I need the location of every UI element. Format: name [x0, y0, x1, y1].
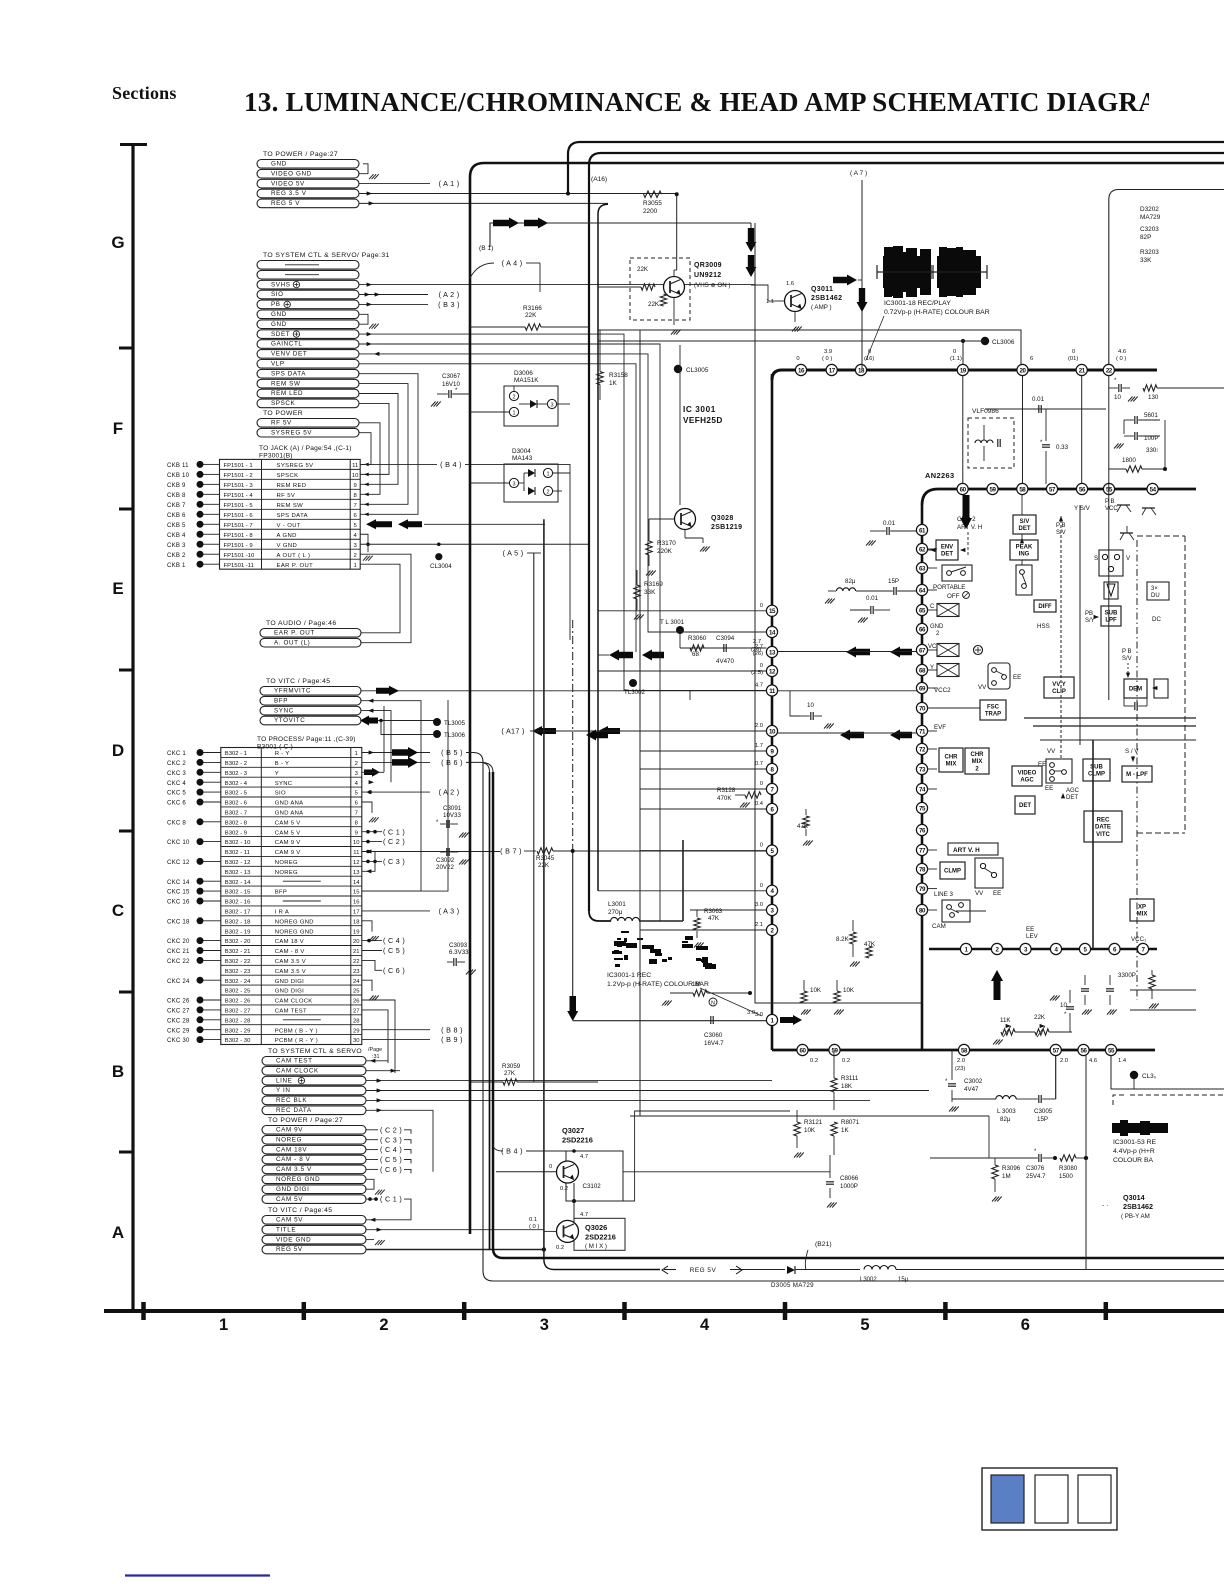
- svg-text:2SB1462: 2SB1462: [1123, 1202, 1153, 1211]
- block CHR MIX: [939, 748, 963, 772]
- block SV DET: [1013, 515, 1036, 534]
- svg-text:Y S/V: Y S/V: [1074, 505, 1091, 512]
- capacitor C3094: [723, 644, 725, 652]
- svg-text:FP1501 - 3: FP1501 - 3: [224, 483, 254, 489]
- svg-text:PB: PB: [1085, 611, 1093, 617]
- pill Y IN: [262, 1086, 366, 1095]
- mid pin 2: [991, 943, 1002, 954]
- svg-text:- ·: - ·: [1102, 1202, 1108, 1209]
- dashed box right edge: [1184, 536, 1186, 833]
- svg-text:L 3003: L 3003: [997, 1108, 1016, 1115]
- wire pin11: [690, 690, 766, 692]
- svg-text:15P: 15P: [1037, 1116, 1048, 1123]
- svg-text:2.0: 2.0: [755, 723, 763, 729]
- svg-text:VLF0986: VLF0986: [972, 408, 999, 415]
- svg-text:28: 28: [353, 1018, 360, 1024]
- switch VV EE 2: [1046, 759, 1072, 783]
- svg-text:SPSCK: SPSCK: [271, 400, 296, 407]
- svg-text:AN2263: AN2263: [925, 471, 955, 480]
- wire power pill: [366, 1139, 378, 1141]
- svg-text:130: 130: [1148, 394, 1159, 401]
- wire pin7: [640, 788, 766, 790]
- IC3001 pin 3: [766, 904, 777, 915]
- left ruler top bracket: [120, 143, 147, 146]
- CKC dot: [197, 1006, 204, 1013]
- svg-text:R3111: R3111: [841, 1075, 859, 1082]
- wire PCBM BY to B8: [362, 1029, 430, 1031]
- svg-text:SIO: SIO: [271, 291, 284, 298]
- wire REG 5V b: [366, 1249, 544, 1251]
- svg-text:TO POWER / Page:27: TO POWER / Page:27: [268, 1117, 343, 1124]
- fat arrows mid13: [846, 647, 870, 658]
- pill CAM CLOCK: [262, 1066, 366, 1075]
- wire right col verticals: [1079, 505, 1081, 745]
- svg-text:1.7: 1.7: [755, 743, 763, 749]
- svg-text:C: C: [930, 604, 935, 610]
- pill GND: [257, 310, 359, 319]
- svg-text:PB: PB: [271, 301, 281, 308]
- IC3001 pin 65: [916, 604, 927, 615]
- svg-text:CAM 18 V: CAM 18 V: [275, 939, 304, 945]
- wire pin22 down: [1108, 376, 1110, 700]
- svg-text:24: 24: [353, 979, 360, 985]
- wire CAM5V C1: [362, 831, 382, 833]
- svg-text:DATE: DATE: [1095, 825, 1111, 831]
- svg-text:CKB 2: CKB 2: [167, 552, 186, 559]
- svg-text:TRAP: TRAP: [985, 712, 1001, 718]
- svg-text:1000P: 1000P: [840, 1183, 858, 1190]
- svg-text:2: 2: [379, 1316, 388, 1334]
- svg-text:L3001: L3001: [608, 901, 626, 908]
- svg-text:FP1501 - 4: FP1501 - 4: [224, 493, 254, 499]
- svg-text:CKB 3: CKB 3: [167, 542, 186, 549]
- svg-text:4.7: 4.7: [580, 1212, 588, 1218]
- svg-text:FP1501 -10: FP1501 -10: [224, 553, 256, 559]
- svg-text:CKC 2: CKC 2: [167, 760, 186, 767]
- pill CAM 5V: [262, 1195, 366, 1204]
- svg-text:VITC: VITC: [1096, 832, 1110, 838]
- svg-text:D3004: D3004: [512, 448, 531, 455]
- svg-text:PCBM ( B - Y ): PCBM ( B - Y ): [275, 1028, 318, 1034]
- svg-text:GAINCTL: GAINCTL: [271, 341, 303, 348]
- svg-text:EE: EE: [1038, 761, 1046, 768]
- wire pin 77 stub: [928, 849, 937, 851]
- wire A GND ground: [360, 534, 368, 552]
- svg-text:Sections: Sections: [112, 83, 177, 103]
- svg-text:S: S: [1094, 555, 1098, 562]
- AN2263 pin 55: [1103, 483, 1114, 494]
- AN2263 pin 56: [1076, 483, 1087, 494]
- svg-text:C3094: C3094: [716, 635, 735, 642]
- svg-text:B302 - 23: B302 - 23: [225, 969, 251, 975]
- svg-text:CAM 5 V: CAM 5 V: [275, 830, 301, 836]
- svg-text:D: D: [112, 741, 124, 760]
- block SUB LPF: [1101, 606, 1121, 626]
- wire: [204, 900, 221, 902]
- svg-text:SYSREG 5V: SYSREG 5V: [271, 429, 312, 436]
- svg-text:D3202: D3202: [1140, 206, 1159, 213]
- svg-text:VLP: VLP: [271, 361, 285, 368]
- svg-text:S / V: S / V: [1125, 748, 1139, 755]
- svg-text:(B21): (B21): [815, 1241, 832, 1248]
- svg-text:82P: 82P: [1140, 234, 1151, 241]
- CKC dot: [197, 749, 204, 756]
- svg-text:0: 0: [796, 356, 799, 362]
- svg-text:R3045: R3045: [536, 855, 555, 862]
- wire power pill: [366, 1159, 378, 1161]
- AN2263 pin 58: [1017, 483, 1028, 494]
- svg-text:CKB 8: CKB 8: [167, 492, 186, 499]
- svg-text:TL3002: TL3002: [624, 689, 646, 696]
- svg-text:4.7: 4.7: [755, 683, 763, 689]
- svg-text:3.0: 3.0: [747, 1010, 755, 1016]
- svg-text:GND DIGI: GND DIGI: [275, 989, 304, 995]
- svg-text:( C 2 ): ( C 2 ): [383, 837, 405, 846]
- svg-text:B302 - 24: B302 - 24: [225, 979, 251, 985]
- wire: [204, 920, 221, 922]
- wire REC BLK: [366, 1099, 870, 1101]
- wire CAM9V C2: [362, 841, 382, 843]
- svg-text:B302 - 12: B302 - 12: [225, 860, 251, 866]
- outer box 3 top: [589, 153, 1224, 911]
- svg-text:3: 3: [540, 1316, 549, 1334]
- svg-text:10K: 10K: [810, 987, 822, 994]
- wire pin2: [640, 929, 766, 931]
- wire: [204, 543, 220, 545]
- bottom ruler tick: [943, 1302, 948, 1320]
- svg-text:TO AUDIO / Page:46: TO AUDIO / Page:46: [266, 620, 337, 627]
- pill EAR P. OUT: [260, 629, 361, 638]
- svg-text:7: 7: [354, 503, 357, 509]
- svg-text:CKC 10: CKC 10: [167, 839, 190, 846]
- bottom ruler tick: [141, 1302, 146, 1320]
- bottom pin 59: [829, 1044, 840, 1055]
- svg-text:0: 0: [1072, 349, 1075, 355]
- left ruler tick: [119, 830, 133, 833]
- svg-text:DU: DU: [1151, 593, 1160, 599]
- svg-text:EVF: EVF: [934, 724, 946, 731]
- svg-text:CAM TEST: CAM TEST: [276, 1058, 313, 1065]
- svg-text:18K: 18K: [841, 1083, 853, 1090]
- svg-text:8.2K: 8.2K: [836, 936, 850, 943]
- svg-text:1: 1: [546, 472, 549, 478]
- pill CAM 9V: [262, 1126, 366, 1135]
- IC3001 pin 21: [1076, 364, 1087, 375]
- fat arrows pin10: [586, 730, 608, 741]
- svg-text:TO SYSTEM CTL & SERVO/ Pag: TO SYSTEM CTL & SERVO/ Page:31: [263, 252, 390, 259]
- bottom ruler tick: [1104, 1302, 1109, 1320]
- wire servo to FP1501: [359, 384, 408, 505]
- AN2263 pin 59: [987, 483, 998, 494]
- svg-text:0.2: 0.2: [810, 1058, 818, 1064]
- svg-text:LEV: LEV: [1026, 933, 1039, 940]
- svg-text:R8071: R8071: [841, 1119, 860, 1126]
- svg-text:1: 1: [512, 411, 515, 417]
- svg-text:3.0: 3.0: [755, 902, 763, 908]
- wire Q3011 base: [768, 300, 784, 302]
- wire: [204, 880, 221, 882]
- pill YFRMVITC: [260, 687, 361, 696]
- IC3001 pin 18: [855, 364, 866, 375]
- svg-text:26: 26: [353, 999, 360, 1005]
- AN2263 pin 54: [1147, 483, 1158, 494]
- wire texture 1: [639, 330, 641, 921]
- svg-text:1500: 1500: [1059, 1173, 1073, 1180]
- resistor R3170: [646, 541, 652, 555]
- svg-text:470K: 470K: [717, 795, 732, 802]
- wire YFRMVITC: [361, 690, 922, 692]
- wire: [204, 503, 220, 505]
- wire vert 483: [466, 753, 1224, 1282]
- wire: [204, 483, 220, 485]
- svg-text:9: 9: [354, 483, 357, 489]
- svg-text:TL3006: TL3006: [444, 732, 466, 739]
- CKC dot: [197, 878, 204, 885]
- svg-text:15P: 15P: [888, 578, 899, 585]
- wire pin1 line: [573, 1020, 767, 1022]
- svg-text:20V22: 20V22: [436, 864, 454, 871]
- wire VIDE GND gnd: [366, 1239, 374, 1241]
- bottom ruler tick: [462, 1302, 467, 1320]
- CKB dot: [197, 521, 204, 528]
- svg-text:MA151K: MA151K: [514, 377, 539, 384]
- svg-text:3300P: 3300P: [1118, 972, 1136, 979]
- wire: [204, 979, 221, 981]
- svg-text:19: 19: [353, 929, 360, 935]
- pill CAM 3.5 V: [262, 1165, 366, 1174]
- wire b4 tag: [493, 1144, 503, 1151]
- svg-text:VV: VV: [1047, 748, 1056, 755]
- pill CAM 5V: [262, 1216, 366, 1225]
- IC3001 pin 11: [766, 685, 777, 696]
- svg-text:12: 12: [353, 860, 360, 866]
- svg-text:B302 - 27: B302 - 27: [225, 1009, 251, 1015]
- svg-text:UN9212: UN9212: [694, 272, 721, 279]
- svg-text:C3092: C3092: [436, 857, 455, 864]
- wire CAM-8 C5: [362, 950, 382, 952]
- svg-text:TO SYSTEM CTL & SERVO: TO SYSTEM CTL & SERVO: [268, 1048, 362, 1055]
- svg-text:TO JACK (A) / Page:54 ,(C-: TO JACK (A) / Page:54 ,(C-1): [259, 445, 352, 452]
- svg-text:22K: 22K: [637, 266, 649, 273]
- svg-text:FP1501 - 5: FP1501 - 5: [224, 503, 254, 509]
- wire vert 489: [489, 772, 491, 1250]
- svg-text:CKC 22: CKC 22: [167, 958, 190, 965]
- svg-text:B302 - 15: B302 - 15: [225, 890, 251, 896]
- svg-text:DIFF: DIFF: [1038, 604, 1052, 610]
- svg-text:100P: 100P: [1144, 435, 1158, 442]
- svg-text:CAM 3.5 V: CAM 3.5 V: [275, 969, 306, 975]
- svg-text:MA143: MA143: [512, 455, 533, 462]
- svg-text:4: 4: [700, 1316, 710, 1334]
- svg-text:R3059: R3059: [502, 1063, 521, 1070]
- IC3001 pin 15: [766, 605, 777, 616]
- svg-text:REC DATA: REC DATA: [276, 1107, 312, 1114]
- mixer pin67: [937, 644, 959, 657]
- diode D3005: [787, 1266, 795, 1274]
- pill SYNC: [260, 706, 361, 715]
- IC3001 pin 16: [795, 364, 806, 375]
- REG 5V bottom rail: [544, 1252, 660, 1270]
- svg-text:C3091: C3091: [443, 805, 462, 812]
- svg-text:57: 57: [1053, 1047, 1060, 1054]
- CKB dot: [197, 551, 204, 558]
- svg-text:2: 2: [354, 553, 357, 559]
- wire pin8: [640, 768, 766, 770]
- svg-text:PEAK: PEAK: [1016, 545, 1033, 551]
- CKB dot: [197, 541, 204, 548]
- svg-text:MA729: MA729: [1140, 214, 1161, 221]
- svg-text:2SB1462: 2SB1462: [811, 295, 842, 302]
- svg-text:R3055: R3055: [643, 200, 662, 207]
- svg-text:0: 0: [760, 663, 763, 669]
- resistor 130: [1143, 385, 1157, 391]
- CKC dot: [197, 799, 204, 806]
- pill REM SW: [257, 379, 359, 388]
- TL3002 dot: [629, 679, 637, 687]
- svg-text:C8066: C8066: [840, 1175, 859, 1182]
- wire pin 74 stub: [928, 788, 937, 790]
- svg-text:( C 5 ): ( C 5 ): [380, 1155, 402, 1164]
- mid bus row: [929, 948, 1157, 951]
- svg-text:6: 6: [1021, 1316, 1030, 1334]
- svg-text:( C 4 ): ( C 4 ): [383, 936, 405, 945]
- svg-text:0.2: 0.2: [560, 1186, 568, 1192]
- pill CAM 18V: [262, 1145, 366, 1154]
- wire NOREG13: [362, 852, 375, 872]
- dashed boundary v: [1136, 540, 1138, 1000]
- svg-text:CKC 18: CKC 18: [167, 918, 190, 925]
- svg-text:IC3001-18 REC/PLAY: IC3001-18 REC/PLAY: [884, 300, 951, 307]
- svg-text:S/V: S/V: [1122, 656, 1132, 662]
- IC3001 pin 4: [766, 885, 777, 896]
- CKB dot: [197, 461, 204, 468]
- wire y341: [598, 340, 985, 342]
- svg-text:CKC 5: CKC 5: [167, 790, 186, 797]
- svg-text:CKC 3: CKC 3: [167, 770, 186, 777]
- wire pin 64 stub: [928, 589, 937, 591]
- CKB dot: [197, 471, 204, 478]
- dash corner: [1113, 1095, 1125, 1105]
- svg-text:CKC 27: CKC 27: [167, 1008, 190, 1015]
- switch LINE CAM: [942, 900, 970, 922]
- wire power pill: [366, 1149, 378, 1151]
- bottom ruler line: [104, 1309, 1224, 1313]
- wire servo to FP1501: [359, 423, 380, 495]
- svg-text:SIO: SIO: [275, 791, 286, 797]
- svg-text:GND: GND: [930, 624, 944, 630]
- transistor Q3011: [785, 291, 806, 312]
- IC3001 pin 8: [766, 763, 777, 774]
- wire: [204, 771, 221, 773]
- wire y330: [598, 330, 1021, 364]
- svg-text:( B 5 ): ( B 5 ): [441, 748, 463, 757]
- IC3001 pin 2: [766, 924, 777, 935]
- page nav box 2: [1035, 1475, 1068, 1523]
- wire to CAM5V vitc: [366, 1199, 411, 1220]
- colour bar fragments: [650, 949, 661, 953]
- svg-text:( B 8 ): ( B 8 ): [441, 1025, 463, 1034]
- svg-text:SVHS: SVHS: [271, 281, 291, 288]
- bottom ruler tick: [302, 1302, 307, 1320]
- resistor right edge: [1149, 975, 1155, 989]
- svg-text:1M: 1M: [1002, 1173, 1011, 1180]
- wire CAM18 C4: [362, 940, 382, 942]
- IC3001 pin 71: [916, 725, 927, 736]
- svg-text:VCC₁: VCC₁: [1131, 936, 1146, 943]
- title crop margin: [1149, 72, 1224, 134]
- wire QR collector: [673, 270, 675, 277]
- svg-text:25: 25: [353, 989, 360, 995]
- svg-text:VV: VV: [975, 890, 984, 897]
- block 3x DU: [1147, 582, 1169, 600]
- svg-text:Q3028: Q3028: [711, 515, 734, 522]
- bottom pin 57: [1050, 1044, 1061, 1055]
- svg-text:BFP: BFP: [275, 890, 287, 896]
- wire pin55 down: [1111, 1056, 1224, 1089]
- svg-text:1: 1: [355, 751, 358, 757]
- wire VENV DET: [359, 354, 660, 632]
- dashed box top edge: [1137, 535, 1185, 537]
- svg-text:2200: 2200: [643, 208, 658, 215]
- pill NOREG: [262, 1135, 366, 1144]
- svg-text:CLMP: CLMP: [944, 869, 961, 875]
- svg-text:( A17 ): ( A17 ): [501, 727, 524, 736]
- svg-text:10: 10: [807, 702, 814, 709]
- IC3001 pin 77: [916, 844, 927, 855]
- wire SIO to A2b: [362, 791, 430, 793]
- wire TITLE: [366, 1229, 544, 1231]
- wire Q3027 right: [623, 1171, 830, 1173]
- svg-text:17: 17: [829, 367, 836, 374]
- wire texture 2: [659, 560, 661, 921]
- wire right 990: [1130, 989, 1196, 991]
- svg-text:10K: 10K: [843, 987, 855, 994]
- svg-text:16V4.7: 16V4.7: [704, 1040, 724, 1047]
- svg-text:CL3004: CL3004: [430, 563, 452, 570]
- wire pin 78 stub: [928, 868, 937, 870]
- svg-text:A OUT ( L ): A OUT ( L ): [277, 553, 311, 559]
- svg-text:0: 0: [760, 603, 763, 609]
- bus 589 corner to L3001: [589, 911, 611, 921]
- svg-text:TO POWER / Page:27: TO POWER / Page:27: [263, 151, 338, 158]
- svg-text:Y: Y: [930, 665, 934, 671]
- pill SPS DATA: [257, 369, 359, 378]
- wire servo to FP1501: [359, 403, 389, 474]
- page nav outer box: [982, 1468, 1117, 1530]
- svg-text:CKC 12: CKC 12: [167, 859, 190, 866]
- svg-text:33K: 33K: [644, 589, 656, 596]
- IC3001 pin 75: [916, 802, 927, 813]
- wire pin19 down: [962, 376, 964, 484]
- svg-text:3×: 3×: [1151, 586, 1158, 592]
- svg-text:VCC: VCC: [1105, 506, 1118, 512]
- svg-text:CAM CLOCK: CAM CLOCK: [275, 999, 313, 1005]
- svg-text:0.7: 0.7: [755, 761, 763, 767]
- svg-text:SPSCK: SPSCK: [277, 473, 299, 479]
- svg-text:SYNC: SYNC: [275, 781, 293, 787]
- wire pin12: [598, 670, 766, 672]
- svg-text:EE: EE: [1026, 926, 1034, 933]
- svg-text:R3203: R3203: [1140, 249, 1159, 256]
- svg-text:V - OUT: V - OUT: [277, 523, 301, 529]
- svg-text:CKB 7: CKB 7: [167, 502, 186, 509]
- svg-text:2SD2216: 2SD2216: [585, 1233, 616, 1242]
- wire BFP15: [362, 700, 448, 891]
- svg-text:CKC 30: CKC 30: [167, 1037, 190, 1044]
- svg-text:ENV: ENV: [941, 545, 953, 551]
- svg-text:FP1501 - 8: FP1501 - 8: [224, 533, 254, 539]
- wire pin22 up feed: [1109, 190, 1224, 365]
